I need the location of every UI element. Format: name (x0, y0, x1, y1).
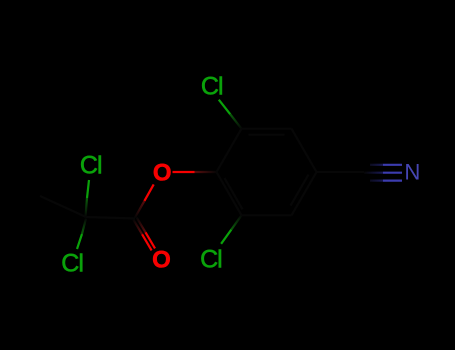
bond C1-O ester red half (173, 171, 195, 173)
wire C4-C5 (292, 172, 317, 215)
svg-text:Cl: Cl (61, 250, 83, 278)
svg-text:Cl: Cl (200, 246, 222, 274)
svg-text:Cl: Cl (80, 152, 102, 180)
nitrile triple bond top line blue half (383, 164, 402, 166)
wire inner double C2-C3 (249, 134, 285, 136)
bond CCl2-Cl(top) dark half (86, 198, 88, 217)
bond carbonylC-CCl2 (86, 217, 135, 219)
bond C2-Cl(ring top) green half (219, 100, 230, 115)
carbonyl C=O double bond line A red half (142, 234, 152, 250)
carbonyl C=O double bond line A dark half (133, 220, 142, 235)
wire inner double C4-C5 (291, 175, 309, 206)
wire C3-C4 (292, 129, 317, 172)
nitrile triple bond top line dark stub (370, 164, 383, 166)
wire C5-C6 (242, 214, 292, 216)
nitrile triple bond bottom line blue half (383, 180, 402, 182)
wire inner double C6-C1 (225, 178, 243, 209)
wire C1-C2 (217, 129, 242, 172)
nitrile triple bond middle line dark half (364, 172, 383, 174)
nitrile triple bond bottom line dark stub (370, 180, 383, 182)
bond O-C(carbonyl) red half (144, 184, 153, 201)
bond CCl2-Cl(lower) dark half (82, 219, 86, 235)
bond C2-Cl(ring top) dark half (230, 114, 241, 129)
svg-text:N: N (404, 159, 420, 184)
bond CCl2-Cl(top) green half (87, 180, 89, 198)
benzene ring (carbon skeleton, near-black) (40, 129, 364, 219)
wire C6-C1 (217, 172, 242, 215)
carbonyl C=O double bond line B red half (146, 232, 156, 248)
svg-text:O: O (153, 159, 172, 186)
bond CCl2-Cl(lower) green half (77, 234, 82, 249)
bond O-C(carbonyl) dark half (135, 201, 144, 218)
bond C4-C(nitrile) (317, 171, 365, 173)
bond C6-Cl(ring bottom) dark half (231, 215, 241, 229)
carbonyl C=O double bond line B dark half (137, 218, 146, 233)
nitrile triple bond middle line blue half (383, 172, 402, 174)
svg-text:Cl: Cl (201, 73, 223, 101)
svg-text:O: O (152, 247, 171, 274)
bond C6-Cl(ring bottom) green half (221, 230, 231, 244)
wire C2-C3 (242, 128, 292, 130)
bond CCl2-CH3 methyl (40, 196, 86, 217)
bond C1-O ester dark half (195, 171, 217, 173)
